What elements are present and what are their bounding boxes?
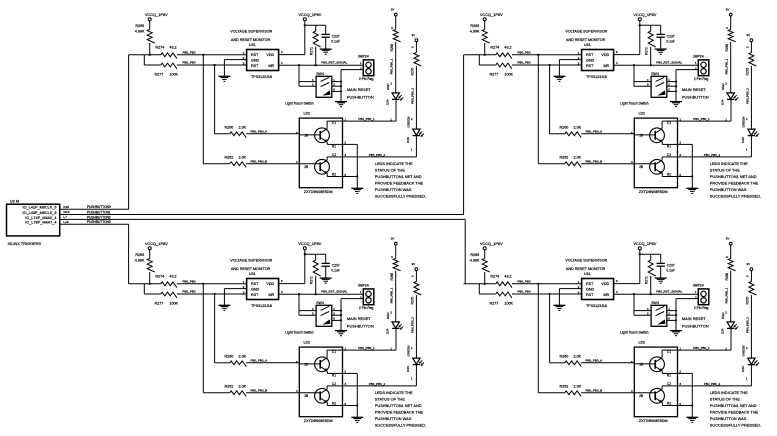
svg-text:K26: K26 bbox=[63, 205, 69, 209]
svg-text:IO_L41P_M6CLK_6: IO_L41P_M6CLK_6 bbox=[23, 206, 57, 210]
svg-text:IO_L43P_M6CLK_6: IO_L43P_M6CLK_6 bbox=[23, 211, 57, 215]
svg-text:PUSHBUTTON2: PUSHBUTTON2 bbox=[87, 215, 111, 219]
svg-text:PUSHBUTTON0: PUSHBUTTON0 bbox=[87, 205, 111, 209]
svg-text:L7: L7 bbox=[63, 215, 67, 219]
svg-text:IO_L78P_M4A7_4: IO_L78P_M4A7_4 bbox=[25, 221, 56, 225]
svg-text:IO_L74P_M4A0_4: IO_L74P_M4A0_4 bbox=[25, 216, 56, 220]
svg-text:PUSHBUTTON3: PUSHBUTTON3 bbox=[87, 220, 111, 224]
svg-text:PUSHBUTTON1: PUSHBUTTON1 bbox=[87, 210, 111, 214]
svg-text:L19: L19 bbox=[63, 220, 68, 224]
svg-text:XILINX TRIGGERS: XILINX TRIGGERS bbox=[8, 241, 42, 246]
svg-text:U3 M: U3 M bbox=[10, 198, 19, 203]
svg-text:M19: M19 bbox=[63, 210, 69, 214]
